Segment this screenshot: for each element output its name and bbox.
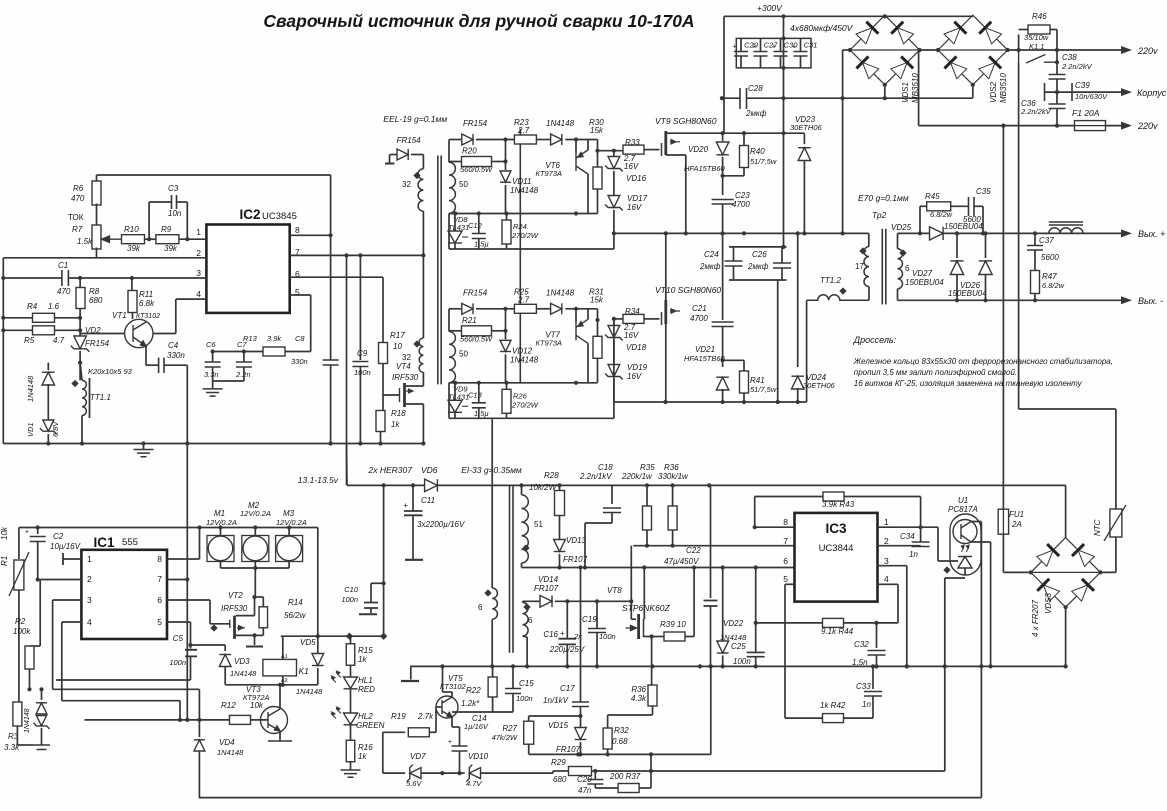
junction <box>1017 48 1021 52</box>
svg-text:C35: C35 <box>976 187 991 196</box>
wire <box>1115 409 1117 509</box>
winding EI-33 primary (6t) <box>492 588 497 619</box>
svg-text:R41: R41 <box>750 376 765 385</box>
bridge diode VDS1 <box>856 56 879 79</box>
resistor R10 <box>122 235 145 244</box>
resistor R18 <box>376 411 385 432</box>
svg-text:C19: C19 <box>582 615 597 624</box>
diode VD12 1N4148 <box>500 340 511 351</box>
bridge diode VDS3 <box>1037 579 1060 602</box>
svg-text:R47: R47 <box>1042 272 1057 281</box>
svg-text:VD20: VD20 <box>688 145 709 154</box>
svg-text:6.8/2w: 6.8/2w <box>930 210 953 219</box>
svg-text:C20: C20 <box>577 775 592 784</box>
svg-text:K1: K1 <box>299 666 310 676</box>
fuse F1 20A <box>1075 121 1106 131</box>
wire <box>61 622 63 701</box>
junction <box>650 634 654 638</box>
wire <box>685 636 694 638</box>
resistor R12 10k <box>230 715 251 724</box>
wire <box>843 717 873 719</box>
wire <box>575 140 577 154</box>
junction <box>583 565 587 569</box>
wire <box>454 412 456 418</box>
svg-text:R19: R19 <box>391 712 406 721</box>
svg-text:1.5k: 1.5k <box>77 237 93 246</box>
wire <box>412 515 414 559</box>
junction <box>742 131 746 135</box>
junction low rail <box>511 664 515 668</box>
svg-text:C26: C26 <box>752 250 767 259</box>
ground <box>203 389 223 396</box>
bridge rectifier VDS2 <box>938 15 1008 85</box>
wire <box>449 213 598 215</box>
wire <box>743 168 745 176</box>
capacitor C36 <box>1049 104 1066 109</box>
wire <box>843 49 850 51</box>
junction <box>1033 298 1037 302</box>
transistor VT3 KT972A <box>261 707 288 734</box>
svg-text:1k R42: 1k R42 <box>820 701 846 710</box>
ground <box>134 450 154 457</box>
wire <box>800 38 802 51</box>
wire <box>448 140 450 163</box>
resistor R44 9.1k <box>823 618 844 627</box>
capacitor C33 <box>864 692 882 697</box>
svg-text:1N4148: 1N4148 <box>217 748 244 757</box>
svg-text:FR107: FR107 <box>563 555 588 564</box>
wire <box>448 383 450 419</box>
svg-text:330n: 330n <box>291 357 308 366</box>
capacitor C18 <box>603 508 621 513</box>
wire LED cathode <box>964 568 966 575</box>
wire <box>872 666 874 689</box>
wire snubber rail <box>529 753 711 755</box>
svg-text:VD15: VD15 <box>548 721 569 730</box>
wire <box>777 280 779 402</box>
wire <box>1019 29 1029 31</box>
resistor R23 2.7 <box>514 135 536 144</box>
wire <box>844 496 921 498</box>
svg-text:8: 8 <box>295 225 300 235</box>
wire source VT2 <box>236 634 255 636</box>
polarity dot <box>859 247 866 254</box>
polarity dot <box>71 380 78 387</box>
wire <box>897 233 899 248</box>
svg-text:FU1: FU1 <box>1009 510 1024 519</box>
junction <box>78 316 82 320</box>
transistor VT2 IRF530 <box>230 616 245 639</box>
resistor R1 10k <box>14 560 24 590</box>
resistor R11 <box>128 291 137 313</box>
resistor R28 10k/2W <box>555 491 565 516</box>
wire <box>149 201 171 203</box>
wire <box>505 140 507 171</box>
wire <box>1050 29 1057 31</box>
wire C3 loop <box>148 202 150 239</box>
junction <box>578 714 582 718</box>
local ground VT2 <box>246 646 263 648</box>
thermistor stroke R1 <box>9 552 29 596</box>
svg-text:100k: 100k <box>13 627 31 636</box>
svg-text:R6: R6 <box>73 184 84 193</box>
wire <box>449 417 614 419</box>
junction <box>1 316 5 320</box>
svg-text:Дроссель:: Дроссель: <box>853 335 897 345</box>
junction mid bus <box>721 231 725 235</box>
wire <box>652 706 654 715</box>
svg-text:RED: RED <box>358 685 375 694</box>
wire collector VT5 <box>442 666 444 692</box>
svg-text:56/2w: 56/2w <box>284 611 307 620</box>
wire <box>614 318 623 320</box>
svg-text:VD17: VD17 <box>627 194 648 203</box>
wire <box>383 731 405 733</box>
junction <box>918 231 922 235</box>
polarity dot <box>413 340 420 347</box>
wire <box>743 393 745 402</box>
wire Vyh- rail <box>898 299 1123 301</box>
wire <box>559 554 561 568</box>
wire <box>613 319 615 325</box>
svg-text:C17: C17 <box>560 684 575 693</box>
svg-text:5600: 5600 <box>963 215 981 224</box>
wire <box>920 497 922 528</box>
wire <box>555 600 631 602</box>
wire <box>79 308 81 338</box>
svg-text:16 витков КГ-25, изоляция заме: 16 витков КГ-25, изоляция заменена на тк… <box>854 379 1083 388</box>
svg-text:ТТ1.1: ТТ1.1 <box>90 393 111 402</box>
wire <box>747 97 973 99</box>
svg-text:C37: C37 <box>1039 236 1054 245</box>
wire <box>665 131 667 133</box>
wire <box>505 354 507 383</box>
wire <box>754 497 756 528</box>
junction low rail <box>905 664 909 668</box>
wire pin3 <box>878 565 907 567</box>
wire <box>1065 607 1067 666</box>
wire ground bus <box>3 443 423 445</box>
junction low rail <box>525 664 529 668</box>
wire <box>722 233 724 320</box>
svg-text:Железное кольцо 83х55х30 от фе: Железное кольцо 83х55х30 от феррорезонан… <box>853 357 1113 366</box>
resistor R47 <box>1031 271 1040 294</box>
svg-text:C32: C32 <box>854 640 869 649</box>
svg-text:VD18: VD18 <box>626 343 647 352</box>
wire <box>62 700 180 702</box>
wire <box>254 562 256 569</box>
wire C24C26 bottom rail <box>729 279 787 281</box>
svg-text:7: 7 <box>157 574 162 584</box>
svg-text:C8: C8 <box>295 334 305 343</box>
wire <box>596 633 598 667</box>
wire <box>587 140 589 151</box>
svg-text:2x HER307: 2x HER307 <box>368 465 413 475</box>
svg-text:C6: C6 <box>206 340 216 349</box>
bridge diode VDS3 <box>1036 544 1059 567</box>
svg-text:R39 10: R39 10 <box>660 620 686 629</box>
wire <box>1056 50 1058 74</box>
svg-text:MB3510: MB3510 <box>999 73 1008 103</box>
svg-text:12V/0.2A: 12V/0.2A <box>206 518 237 527</box>
svg-text:12V/0.2A: 12V/0.2A <box>240 509 271 518</box>
svg-text:2.2n/1kV: 2.2n/1kV <box>579 472 612 481</box>
wire <box>17 744 33 746</box>
svg-text:1n/1kV: 1n/1kV <box>543 696 569 705</box>
wire <box>803 160 805 233</box>
wire <box>476 308 514 310</box>
junction mid bus <box>612 231 616 235</box>
wire R12 row <box>85 719 230 721</box>
snubber plate <box>385 163 394 165</box>
svg-text:пропил 3,5 мм залит полиэфирно: пропил 3,5 мм залит полиэфирной смолой. <box>854 368 1017 377</box>
cap plates <box>33 745 50 750</box>
svg-text:50: 50 <box>459 180 468 189</box>
svg-text:3.9k: 3.9k <box>267 334 282 343</box>
junction <box>707 483 711 487</box>
winding TT1.1 <box>82 380 86 415</box>
wire <box>650 771 652 788</box>
junction <box>503 137 507 141</box>
capacitor C1 <box>62 270 69 286</box>
junction <box>721 174 725 178</box>
svg-text:47k/2W: 47k/2W <box>492 733 518 742</box>
svg-text:C10: C10 <box>344 585 359 594</box>
svg-text:R27: R27 <box>502 724 517 733</box>
wire <box>1065 485 1067 537</box>
wire <box>224 645 226 651</box>
junction <box>503 329 507 333</box>
svg-text:КТ3102: КТ3102 <box>440 682 467 691</box>
resistor R35 220k/1w <box>643 506 652 530</box>
wire <box>175 299 177 333</box>
junction <box>595 318 599 322</box>
wire <box>597 140 599 151</box>
wire <box>595 787 618 789</box>
wire <box>528 716 530 721</box>
junction <box>612 317 616 321</box>
svg-text:VD16: VD16 <box>626 174 647 183</box>
capacitor C35 <box>969 197 975 216</box>
wire <box>448 214 450 250</box>
junction <box>576 752 580 756</box>
svg-text:C2: C2 <box>53 532 64 541</box>
wire <box>452 711 493 713</box>
junction <box>565 599 569 603</box>
wire <box>505 185 507 214</box>
wire <box>459 727 461 746</box>
junction low rail <box>490 664 494 668</box>
wire drain VT4 <box>405 385 424 387</box>
svg-text:R21: R21 <box>462 316 477 325</box>
wire <box>190 656 192 680</box>
capacitor C28 <box>740 88 747 109</box>
wire drain VT10 <box>665 233 667 300</box>
wire source VT9 <box>666 154 686 156</box>
svg-text:C27: C27 <box>764 41 779 50</box>
transistor VT8 STP6NK60Z <box>639 614 644 639</box>
junction <box>78 361 82 365</box>
junction <box>1006 48 1010 52</box>
resistor R43 3.9k <box>823 492 844 501</box>
winding Tp2 secondary (6t) <box>898 249 903 289</box>
relay contact K1.1 <box>1019 50 1057 63</box>
wire <box>145 346 147 365</box>
wire pin6 <box>290 276 383 278</box>
bridge diode VDS2 <box>979 22 1002 45</box>
svg-text:VD10: VD10 <box>468 752 489 761</box>
junction <box>218 525 222 529</box>
capacitor C24 <box>725 261 743 266</box>
wire <box>897 584 899 623</box>
svg-text:R33: R33 <box>625 138 640 147</box>
wire <box>422 372 424 386</box>
junction <box>329 233 333 237</box>
diode VD4 1N4148 <box>194 740 205 751</box>
wire <box>723 175 744 177</box>
junction <box>781 14 785 18</box>
wire C5 return loop <box>56 679 191 681</box>
junction <box>754 565 758 569</box>
capacitor C15 <box>505 689 521 694</box>
svg-text:680: 680 <box>89 296 103 305</box>
svg-text:6: 6 <box>478 603 483 612</box>
wire <box>177 201 188 203</box>
wire <box>454 383 456 401</box>
svg-text:R5: R5 <box>24 336 35 345</box>
svg-text:8: 8 <box>157 554 162 564</box>
svg-text:R1: R1 <box>0 556 9 566</box>
wire <box>566 644 568 666</box>
wire <box>553 770 569 772</box>
svg-text:51/7,5w: 51/7,5w <box>750 385 777 394</box>
junction <box>781 131 785 135</box>
svg-text:C16: C16 <box>543 630 558 639</box>
svg-text:470: 470 <box>71 194 85 203</box>
diode VD24 30ETH06 <box>791 376 803 389</box>
wire <box>421 772 465 774</box>
junction low rail <box>871 664 875 668</box>
wire gate VT4 <box>383 394 400 396</box>
junction <box>883 14 887 18</box>
wire <box>449 308 461 310</box>
junction low rail <box>1064 664 1068 668</box>
wire pin4 <box>176 298 207 300</box>
shunt reg VD9 TL431 <box>448 400 468 412</box>
junction <box>477 381 481 385</box>
wire <box>611 513 613 524</box>
svg-text:PC817A: PC817A <box>948 505 978 514</box>
diode VD11 1N4148 <box>500 171 511 182</box>
svg-text:5: 5 <box>783 574 788 584</box>
svg-text:C31: C31 <box>804 41 818 50</box>
wire <box>18 590 20 702</box>
wire source <box>644 636 652 638</box>
wire <box>449 161 461 163</box>
junction <box>1 276 5 280</box>
junction <box>721 565 725 569</box>
resistor R2 100k <box>25 646 34 669</box>
polarity dot <box>839 287 846 294</box>
wire <box>243 352 245 363</box>
resistor R27 47k/2W <box>524 721 534 744</box>
wire <box>937 527 939 561</box>
junction <box>78 276 82 280</box>
svg-text:1N4148: 1N4148 <box>230 669 257 678</box>
wire <box>580 568 582 702</box>
svg-text:R4: R4 <box>27 302 38 311</box>
resistor R25 2.7 <box>514 304 536 313</box>
wire +300V bus (VT9 drain) <box>666 132 805 134</box>
svg-text:1.5µ: 1.5µ <box>474 409 489 418</box>
wire supply rail <box>347 484 1066 486</box>
svg-text:1,5n: 1,5n <box>852 658 868 667</box>
svg-text:47n: 47n <box>578 786 592 795</box>
junction <box>971 83 975 87</box>
junction <box>504 211 508 215</box>
wire <box>613 402 615 418</box>
wire Корпус <box>1072 91 1122 93</box>
wire riser LED feed <box>383 485 385 636</box>
svg-text:15k: 15k <box>590 295 604 304</box>
wire <box>449 382 598 384</box>
wire LED anode <box>938 560 958 562</box>
wire <box>145 238 157 240</box>
diode VD22 1N4148 <box>717 641 729 653</box>
svg-text:8: 8 <box>783 517 788 527</box>
svg-text:51: 51 <box>534 520 543 529</box>
wire <box>478 383 480 403</box>
junction <box>519 483 523 487</box>
wire <box>740 56 742 68</box>
fuse FU1 2A <box>998 509 1008 534</box>
svg-text:6: 6 <box>783 556 788 566</box>
wire <box>454 214 456 232</box>
wire <box>723 16 725 133</box>
wire supply riser <box>346 255 348 485</box>
svg-text:6.8k: 6.8k <box>139 299 155 308</box>
wire pin1 <box>179 238 207 240</box>
svg-text:2: 2 <box>884 536 889 546</box>
wire <box>79 278 81 288</box>
wire pin7 <box>167 579 187 581</box>
wire collector VT3 <box>279 685 281 709</box>
junction <box>841 96 845 100</box>
wire pin5 <box>290 294 311 296</box>
wire <box>213 380 244 382</box>
svg-text:2.2n/2kV: 2.2n/2kV <box>1020 107 1052 116</box>
svg-text:R34: R34 <box>625 307 640 316</box>
junction <box>918 48 922 52</box>
wire <box>1056 109 1058 126</box>
svg-text:VD7: VD7 <box>410 752 426 761</box>
winding Tp2 primary (17t) <box>864 247 869 287</box>
wire <box>52 600 54 689</box>
svg-text:150EBU04: 150EBU04 <box>905 278 944 287</box>
svg-text:VD21: VD21 <box>695 345 715 354</box>
wire base VT3 <box>251 719 269 721</box>
capacitor C6 <box>205 362 221 367</box>
wire <box>451 692 453 697</box>
junction <box>378 441 382 445</box>
svg-text:100n: 100n <box>516 694 533 703</box>
wire <box>512 694 514 713</box>
zener VD18 16V <box>605 326 623 341</box>
junction <box>781 96 785 100</box>
junction <box>80 441 84 445</box>
junction <box>382 483 386 487</box>
motor M3 12V/0.2A <box>276 536 303 562</box>
